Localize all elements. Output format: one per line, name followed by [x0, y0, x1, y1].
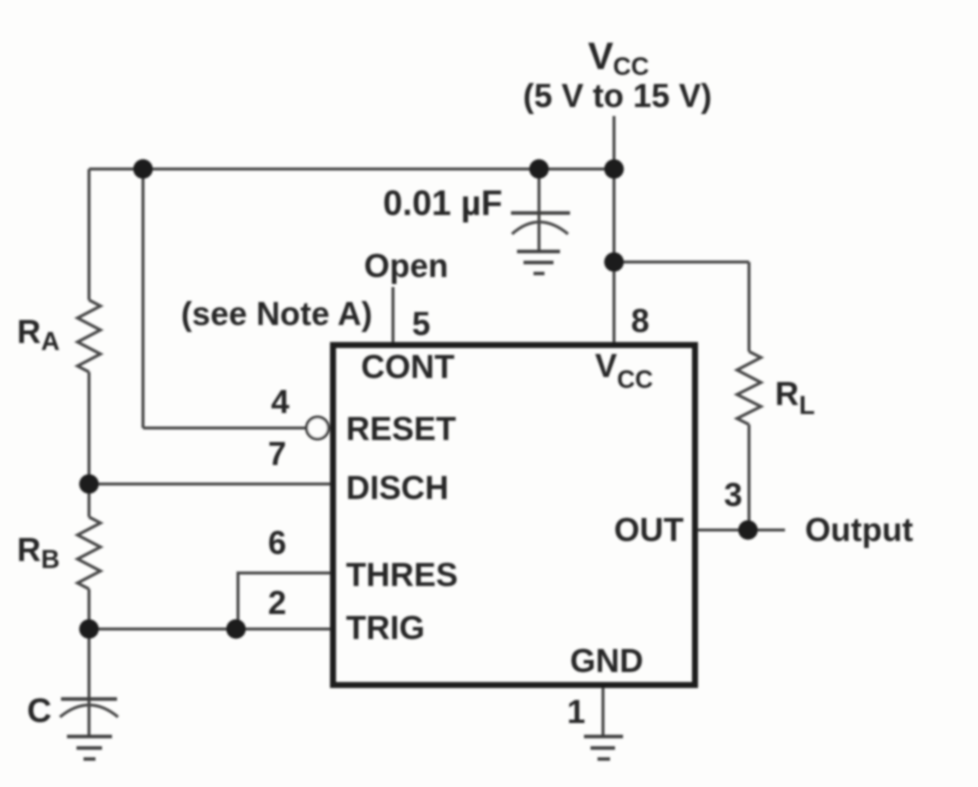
wire CONT pin 5 [392, 287, 395, 343]
svg-text:V: V [595, 347, 617, 384]
node junction DISCH / RA-RB [79, 474, 99, 494]
wire VCC supply vertical (pin 8 feed) [613, 116, 616, 343]
svg-text:RESET: RESET [346, 410, 456, 447]
svg-text:A: A [41, 326, 60, 356]
svg-text:6: 6 [268, 524, 286, 561]
svg-text:B: B [41, 544, 60, 574]
svg-text:Output: Output [805, 511, 913, 548]
wire DISCH pin 7 [89, 483, 333, 486]
svg-text:0.01 µF: 0.01 µF [383, 184, 502, 223]
node junction TRIG / THRES [226, 619, 246, 639]
wire RESET branch horizontal [143, 427, 307, 430]
wire OUT pin 3 [698, 529, 785, 532]
svg-text:THRES: THRES [346, 556, 458, 593]
wire RL branch vertical lower [748, 425, 751, 531]
pin label VCC (inside IC) [595, 347, 653, 394]
label RA [17, 313, 60, 356]
svg-text:CONT: CONT [361, 348, 455, 385]
node junction bypass cap / top bus [529, 159, 549, 179]
ground below C [67, 737, 112, 760]
svg-text:OUT: OUT [614, 511, 684, 548]
node junction VCC / RL branch [604, 252, 624, 272]
node junction VCC / top bus [604, 159, 624, 179]
svg-text:TRIG: TRIG [346, 609, 425, 646]
wire TRIG pin 2 [89, 628, 333, 631]
svg-text:7: 7 [268, 435, 286, 472]
RESET active-low bubble (pin 4) [307, 417, 329, 439]
label RL [775, 375, 815, 420]
svg-text:3: 3 [724, 476, 742, 513]
wire THRES pin 6 [238, 573, 333, 629]
svg-text:(5 V to 15 V): (5 V to 15 V) [523, 77, 712, 114]
svg-text:V: V [588, 36, 614, 78]
svg-text:R: R [17, 531, 41, 568]
wire left vertical (RA/RB branch) top segment [88, 169, 91, 300]
svg-text:DISCH: DISCH [346, 469, 449, 506]
wire left vertical between RA and RB [88, 372, 91, 517]
wire RL branch vertical upper [748, 262, 751, 352]
node junction TRIG / RB-C [79, 619, 99, 639]
capacitor 0.01uF bypass [511, 169, 570, 251]
svg-text:L: L [799, 390, 815, 420]
ground below GND pin [584, 737, 623, 760]
svg-text:1: 1 [567, 693, 585, 730]
svg-text:2: 2 [268, 584, 286, 621]
svg-text:C: C [27, 692, 52, 730]
power label VCC [523, 36, 712, 114]
svg-text:CC: CC [617, 366, 653, 394]
svg-text:(see Note A): (see Note A) [181, 295, 372, 332]
svg-text:4: 4 [271, 383, 290, 420]
resistor RA [78, 300, 101, 372]
wire GND pin 1 [602, 688, 605, 736]
node junction top-left [133, 159, 153, 179]
label RB [17, 531, 60, 574]
wire RL branch horizontal [614, 261, 749, 264]
wire RESET branch vertical [142, 169, 145, 428]
svg-text:R: R [17, 313, 41, 350]
svg-text:Open: Open [364, 247, 448, 284]
resistor RB [78, 517, 101, 589]
wire left vertical below RB down to capacitor C [88, 589, 91, 736]
resistor RL [737, 352, 761, 425]
svg-text:GND: GND [570, 642, 643, 679]
svg-text:5: 5 [412, 305, 430, 342]
svg-text:8: 8 [631, 302, 649, 339]
IC U1 (555 timer) body [333, 345, 695, 685]
capacitor C [60, 699, 118, 717]
wire top horizontal bus [89, 168, 614, 171]
svg-text:R: R [775, 375, 799, 412]
node junction OUT / RL [738, 520, 758, 540]
ground below 0.01uF capacitor [517, 252, 560, 274]
